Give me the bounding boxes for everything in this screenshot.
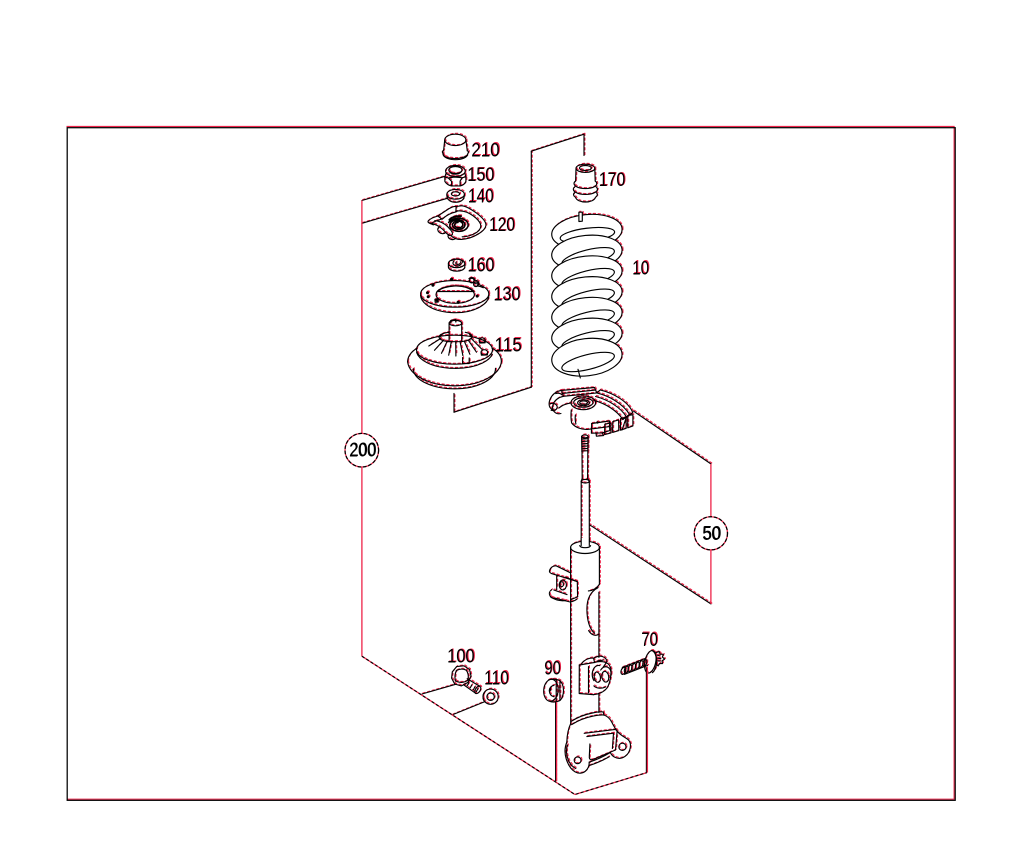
red leader beside nut 90 [556, 702, 558, 781]
group 200 red outline [362, 201, 711, 795]
callout circle 50 [694, 517, 727, 550]
frame red accents [67, 126, 955, 799]
black artwork [362, 134, 711, 781]
red bottom diagonal right [575, 773, 647, 795]
svg-text:50: 50 [702, 524, 720, 545]
svg-text:200: 200 [349, 441, 376, 462]
red leader beside bolt 70 [646, 668, 648, 773]
red verticals of bracket 50 [710, 464, 712, 517]
red fringe copy of artwork [363, 133, 712, 780]
callout circle 200 [345, 433, 379, 467]
red vertical group line 200 [361, 201, 363, 657]
black dashes over red group diagonals [362, 656, 647, 794]
border frame [67, 128, 955, 801]
red bottom diagonal left [362, 656, 575, 794]
